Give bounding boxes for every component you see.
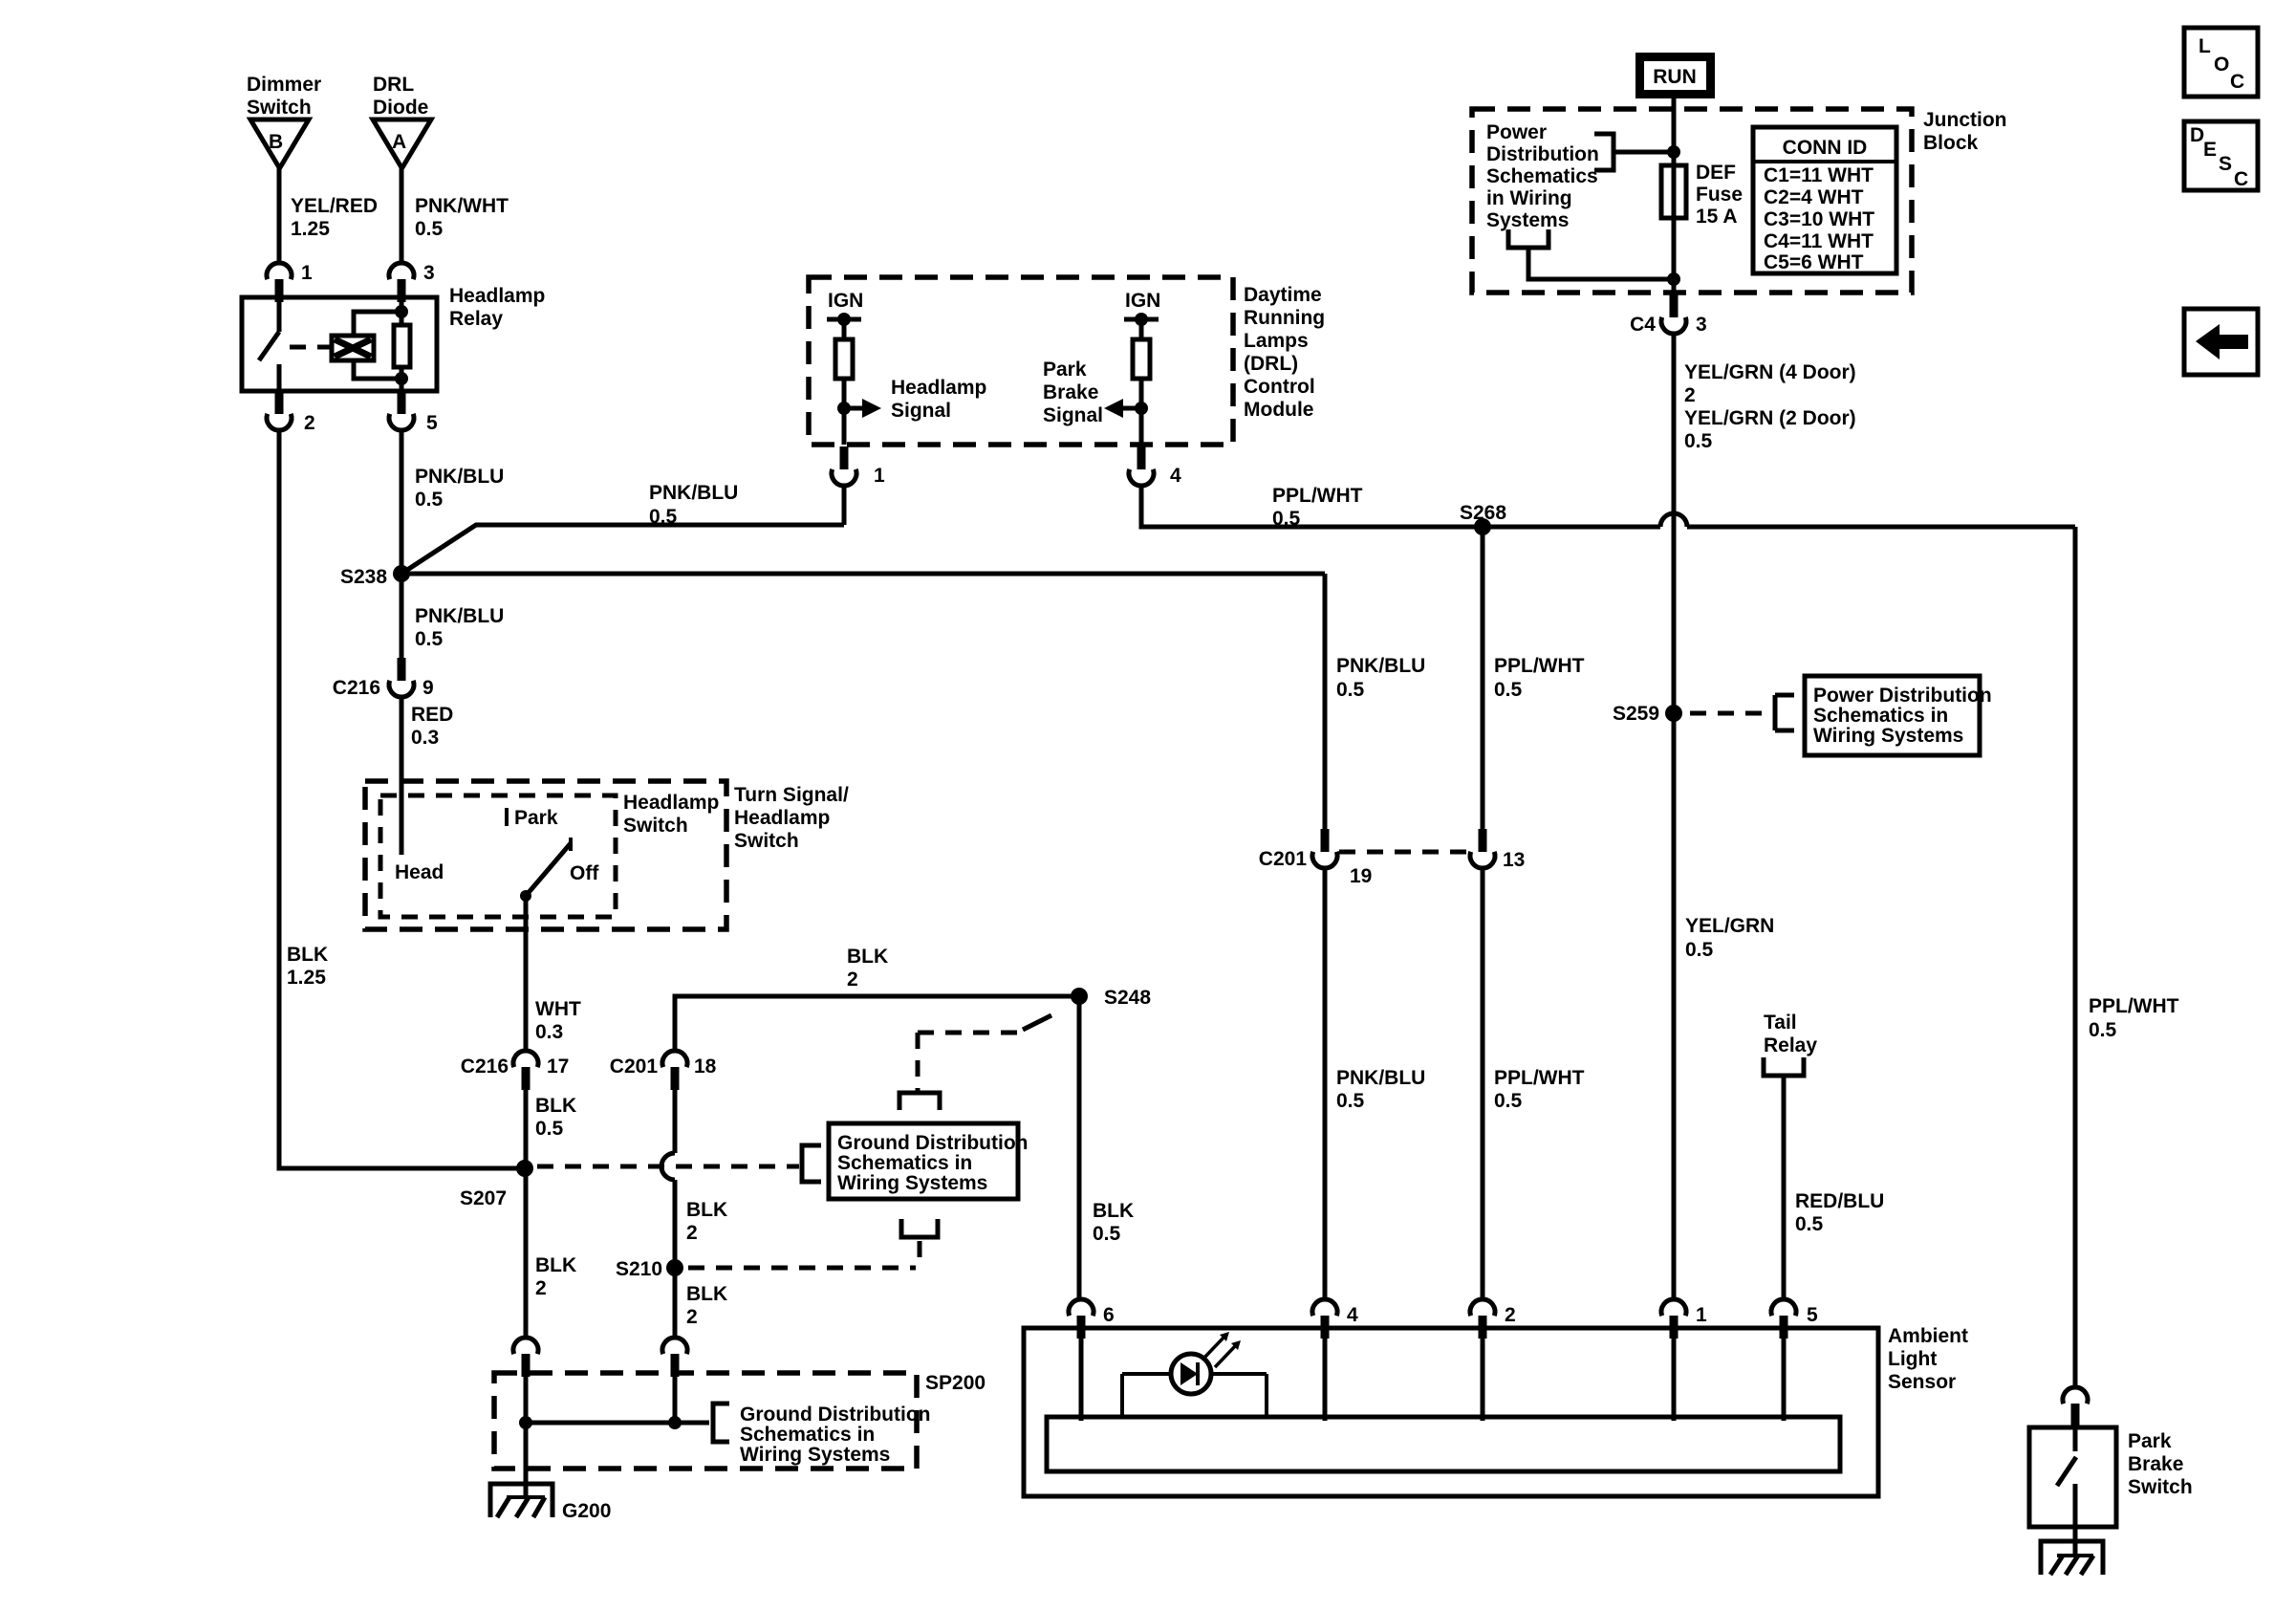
- svg-text:C2=4 WHT: C2=4 WHT: [1764, 186, 1864, 208]
- svg-text:Switch: Switch: [734, 830, 799, 852]
- svg-text:2: 2: [686, 1306, 698, 1328]
- svg-text:1.25: 1.25: [291, 218, 330, 240]
- svg-text:RUN: RUN: [1653, 66, 1697, 88]
- svg-text:0.5: 0.5: [2089, 1019, 2117, 1041]
- svg-text:1.25: 1.25: [287, 967, 326, 989]
- svg-text:Sensor: Sensor: [1888, 1371, 1956, 1393]
- svg-text:Headlamp: Headlamp: [449, 285, 545, 307]
- svg-text:0.5: 0.5: [1272, 508, 1301, 530]
- svg-text:2: 2: [304, 412, 315, 434]
- svg-text:SP200: SP200: [925, 1372, 986, 1394]
- svg-text:2: 2: [535, 1277, 547, 1299]
- svg-text:Ground Distribution: Ground Distribution: [837, 1132, 1028, 1154]
- svg-text:Module: Module: [1244, 399, 1314, 421]
- svg-text:D: D: [2190, 124, 2204, 146]
- svg-text:Headlamp: Headlamp: [891, 377, 986, 399]
- svg-text:Off: Off: [570, 862, 599, 884]
- svg-text:BLK: BLK: [1093, 1200, 1134, 1222]
- svg-text:5: 5: [1807, 1304, 1818, 1326]
- svg-text:PPL/WHT: PPL/WHT: [2089, 995, 2179, 1017]
- svg-text:RED: RED: [411, 704, 453, 726]
- svg-text:4: 4: [1347, 1304, 1358, 1326]
- svg-text:18: 18: [694, 1056, 717, 1078]
- svg-text:YEL/GRN (2 Door): YEL/GRN (2 Door): [1684, 407, 1856, 429]
- svg-text:1: 1: [874, 465, 885, 487]
- svg-text:YEL/RED: YEL/RED: [291, 195, 378, 217]
- svg-text:S268: S268: [1460, 502, 1506, 524]
- svg-text:0.5: 0.5: [1093, 1223, 1121, 1245]
- svg-text:5: 5: [426, 412, 438, 434]
- svg-text:3: 3: [423, 262, 435, 284]
- svg-text:Systems: Systems: [1486, 209, 1569, 231]
- svg-text:C201: C201: [1259, 848, 1308, 870]
- svg-text:Brake: Brake: [1043, 381, 1098, 403]
- svg-text:Running: Running: [1244, 307, 1325, 329]
- svg-text:S207: S207: [460, 1187, 507, 1209]
- svg-text:0.5: 0.5: [1684, 430, 1713, 452]
- svg-text:Relay: Relay: [449, 308, 503, 330]
- svg-text:0.5: 0.5: [415, 218, 444, 240]
- svg-text:9: 9: [422, 677, 434, 699]
- svg-text:17: 17: [547, 1056, 569, 1078]
- svg-text:Schematics in: Schematics in: [740, 1424, 875, 1446]
- svg-text:0.5: 0.5: [1336, 679, 1365, 701]
- svg-text:0.5: 0.5: [415, 489, 444, 511]
- svg-text:2: 2: [847, 969, 858, 991]
- svg-text:C: C: [2234, 168, 2248, 190]
- svg-text:G200: G200: [562, 1500, 611, 1522]
- svg-text:A: A: [392, 131, 406, 153]
- svg-text:Lamps: Lamps: [1244, 330, 1309, 352]
- svg-text:Schematics in: Schematics in: [1813, 705, 1948, 727]
- svg-text:Diode: Diode: [373, 97, 428, 119]
- svg-text:0.3: 0.3: [535, 1021, 563, 1043]
- svg-text:Switch: Switch: [623, 815, 688, 837]
- svg-text:IGN: IGN: [1125, 290, 1160, 312]
- svg-text:19: 19: [1350, 865, 1372, 887]
- svg-text:C4: C4: [1630, 314, 1656, 336]
- svg-text:S248: S248: [1104, 987, 1151, 1009]
- svg-text:15 A: 15 A: [1696, 206, 1738, 228]
- svg-text:C216: C216: [461, 1056, 509, 1078]
- svg-text:Ambient: Ambient: [1888, 1325, 1968, 1347]
- svg-text:0.5: 0.5: [649, 506, 678, 528]
- svg-text:BLK: BLK: [847, 946, 888, 968]
- svg-text:2: 2: [1684, 384, 1696, 406]
- svg-text:WHT: WHT: [535, 998, 581, 1020]
- svg-text:Head: Head: [395, 861, 444, 883]
- svg-text:Tail: Tail: [1764, 1012, 1797, 1034]
- svg-text:2: 2: [686, 1222, 698, 1244]
- svg-text:Daytime: Daytime: [1244, 284, 1322, 306]
- svg-text:Park: Park: [1043, 359, 1087, 381]
- svg-text:RED/BLU: RED/BLU: [1795, 1190, 1884, 1212]
- svg-text:DEF: DEF: [1696, 162, 1736, 184]
- svg-text:0.5: 0.5: [1494, 679, 1523, 701]
- svg-text:Power Distribution: Power Distribution: [1813, 685, 1992, 707]
- svg-text:BLK: BLK: [535, 1095, 576, 1117]
- svg-text:Schematics in: Schematics in: [837, 1152, 972, 1174]
- svg-text:BLK: BLK: [686, 1283, 727, 1305]
- svg-text:Signal: Signal: [1043, 404, 1103, 426]
- svg-text:Wiring Systems: Wiring Systems: [740, 1444, 890, 1466]
- svg-text:CONN ID: CONN ID: [1783, 137, 1868, 159]
- svg-text:3: 3: [1696, 314, 1707, 336]
- svg-text:Signal: Signal: [891, 400, 951, 422]
- svg-text:PNK/BLU: PNK/BLU: [649, 482, 738, 504]
- svg-text:PNK/BLU: PNK/BLU: [1336, 1067, 1425, 1089]
- svg-text:C1=11 WHT: C1=11 WHT: [1764, 164, 1874, 186]
- svg-text:E: E: [2203, 139, 2217, 161]
- svg-text:Headlamp: Headlamp: [734, 807, 830, 829]
- svg-text:Dimmer: Dimmer: [247, 74, 321, 96]
- svg-text:0.5: 0.5: [1336, 1090, 1365, 1112]
- svg-text:DRL: DRL: [373, 74, 414, 96]
- svg-text:C: C: [2230, 71, 2244, 93]
- svg-text:13: 13: [1503, 849, 1525, 871]
- svg-text:C5=6 WHT: C5=6 WHT: [1764, 251, 1864, 273]
- svg-text:L: L: [2199, 35, 2211, 57]
- svg-text:PPL/WHT: PPL/WHT: [1272, 485, 1363, 507]
- svg-text:C3=10 WHT: C3=10 WHT: [1764, 208, 1874, 230]
- svg-text:4: 4: [1170, 465, 1181, 487]
- svg-text:YEL/GRN: YEL/GRN: [1685, 915, 1774, 937]
- svg-text:Light: Light: [1888, 1348, 1937, 1370]
- svg-text:IGN: IGN: [828, 290, 863, 312]
- svg-text:B: B: [269, 131, 283, 153]
- svg-text:C216: C216: [333, 677, 380, 699]
- svg-text:1: 1: [1696, 1304, 1707, 1326]
- svg-text:Block: Block: [1923, 132, 1979, 154]
- svg-text:Control: Control: [1244, 376, 1315, 398]
- svg-text:0.5: 0.5: [1494, 1090, 1523, 1112]
- svg-text:0.5: 0.5: [1685, 939, 1714, 961]
- svg-text:Schematics: Schematics: [1486, 165, 1598, 187]
- svg-text:BLK: BLK: [535, 1254, 576, 1276]
- svg-text:Headlamp: Headlamp: [623, 792, 719, 814]
- svg-text:Wiring Systems: Wiring Systems: [1813, 725, 1963, 747]
- svg-text:Turn Signal/: Turn Signal/: [734, 784, 849, 806]
- svg-text:S210: S210: [616, 1258, 662, 1280]
- svg-text:PPL/WHT: PPL/WHT: [1494, 655, 1585, 677]
- svg-text:0.3: 0.3: [411, 727, 439, 749]
- svg-text:Ground Distribution: Ground Distribution: [740, 1404, 930, 1426]
- svg-text:0.5: 0.5: [535, 1118, 564, 1140]
- svg-text:S: S: [2219, 153, 2232, 175]
- svg-text:Switch: Switch: [2128, 1476, 2193, 1498]
- svg-text:6: 6: [1103, 1304, 1115, 1326]
- svg-text:Switch: Switch: [247, 97, 312, 119]
- svg-text:1: 1: [301, 262, 313, 284]
- svg-text:S238: S238: [340, 566, 387, 588]
- svg-text:PPL/WHT: PPL/WHT: [1494, 1067, 1585, 1089]
- svg-text:S259: S259: [1613, 703, 1659, 725]
- svg-text:C4=11 WHT: C4=11 WHT: [1764, 230, 1874, 252]
- svg-text:Distribution: Distribution: [1486, 143, 1599, 165]
- svg-text:Park: Park: [2128, 1430, 2172, 1452]
- svg-text:PNK/WHT: PNK/WHT: [415, 195, 509, 217]
- svg-text:Park: Park: [514, 807, 558, 829]
- svg-text:(DRL): (DRL): [1244, 353, 1298, 375]
- svg-text:BLK: BLK: [686, 1199, 727, 1221]
- svg-text:in Wiring: in Wiring: [1486, 187, 1572, 209]
- svg-text:Wiring Systems: Wiring Systems: [837, 1172, 987, 1194]
- svg-text:O: O: [2214, 54, 2229, 76]
- svg-text:Junction: Junction: [1923, 109, 2007, 131]
- svg-text:0.5: 0.5: [1795, 1213, 1824, 1235]
- svg-text:2: 2: [1505, 1304, 1516, 1326]
- svg-text:C201: C201: [610, 1056, 659, 1078]
- svg-text:BLK: BLK: [287, 944, 328, 966]
- svg-text:Power: Power: [1486, 121, 1547, 143]
- svg-text:Brake: Brake: [2128, 1453, 2183, 1475]
- svg-text:YEL/GRN (4 Door): YEL/GRN (4 Door): [1684, 361, 1856, 383]
- svg-text:PNK/BLU: PNK/BLU: [1336, 655, 1425, 677]
- svg-text:Relay: Relay: [1764, 1034, 1817, 1056]
- svg-text:PNK/BLU: PNK/BLU: [415, 605, 504, 627]
- svg-text:PNK/BLU: PNK/BLU: [415, 466, 504, 488]
- svg-text:Fuse: Fuse: [1696, 184, 1743, 206]
- svg-text:0.5: 0.5: [415, 628, 444, 650]
